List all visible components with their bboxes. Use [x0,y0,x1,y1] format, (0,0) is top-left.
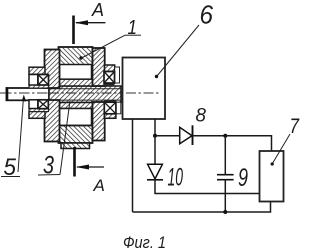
label 3 with leader [38,101,70,180]
right end cap bottom [93,102,105,141]
right retainer top step [105,65,115,72]
svg-text:9: 9 [238,164,248,192]
section arrow bottom [76,165,104,170]
node junction capacitor top [223,134,227,138]
spacer bottom-right [116,102,121,114]
block 7 [260,151,284,202]
svg-text:Фиг. 1: Фиг. 1 [123,233,166,251]
diode 10 [147,164,163,180]
capacitor 9 [217,136,234,212]
wire junction to diode8 [155,135,180,137]
bottom terminal box [61,143,90,149]
stator top window [60,65,92,80]
svg-text:A: A [93,176,105,195]
svg-text:6: 6 [200,0,214,30]
wire cap junction to block7 top [225,136,271,151]
stator bottom window [60,109,92,126]
centerline shaft axis [0,92,163,94]
left end cap top [45,50,60,89]
bearing race dark band above bottom-right bearing [104,100,116,102]
svg-text:8: 8 [196,106,207,127]
bearing race dark band below top-right bearing [104,83,115,86]
svg-text:7: 7 [290,115,301,138]
label 5 with leader [1,95,26,182]
spacer top-right [115,67,120,83]
section line A bottom [73,147,76,177]
wire junction down to diode10 [154,136,156,165]
label 7 with leader [271,115,300,166]
bearing top-left [38,75,49,86]
spacer bottom-left [29,100,38,109]
spacer top-left [29,75,38,86]
wire bottom [133,202,271,213]
node junction capacitor bottom [223,210,227,214]
left flange top step [29,67,45,74]
block 6 [123,58,166,120]
bearing bottom-right [104,102,116,114]
wire diode10 to block7 left [155,180,260,194]
thin hatched band above bottom-left flange [29,109,49,112]
section line A top [72,16,75,45]
wire diode8 to cap junction [192,135,226,137]
centerline through block 6 [126,92,161,94]
shaft 5 [7,88,50,100]
right retainer bottom step [104,114,116,119]
label 1 with leader [79,16,141,60]
svg-text:10: 10 [168,164,184,192]
node junction anode [153,134,157,138]
label 6 with leader [155,0,214,78]
stator top outer block 1 [59,47,93,65]
bearing bottom-left [38,100,48,109]
stator bottom outer block [59,126,93,144]
section arrow top [75,20,106,25]
wire block6 left down [132,119,134,212]
stator top inner strip [59,79,93,86]
diode 8 [180,125,193,145]
bearing top-right [104,72,115,84]
centerline over shaft [1,92,49,94]
stator bottom inner strip [59,103,93,109]
wire block6 right down to junction [154,119,156,136]
left flange bottom step [29,112,45,119]
rotor bar 3 [49,86,121,103]
left end cap bottom [45,100,60,142]
thin hatched band below top-left bearing row [29,85,49,88]
right end cap top [93,48,105,86]
svg-text:A: A [91,0,104,20]
shaft left end thick edge [6,87,9,101]
